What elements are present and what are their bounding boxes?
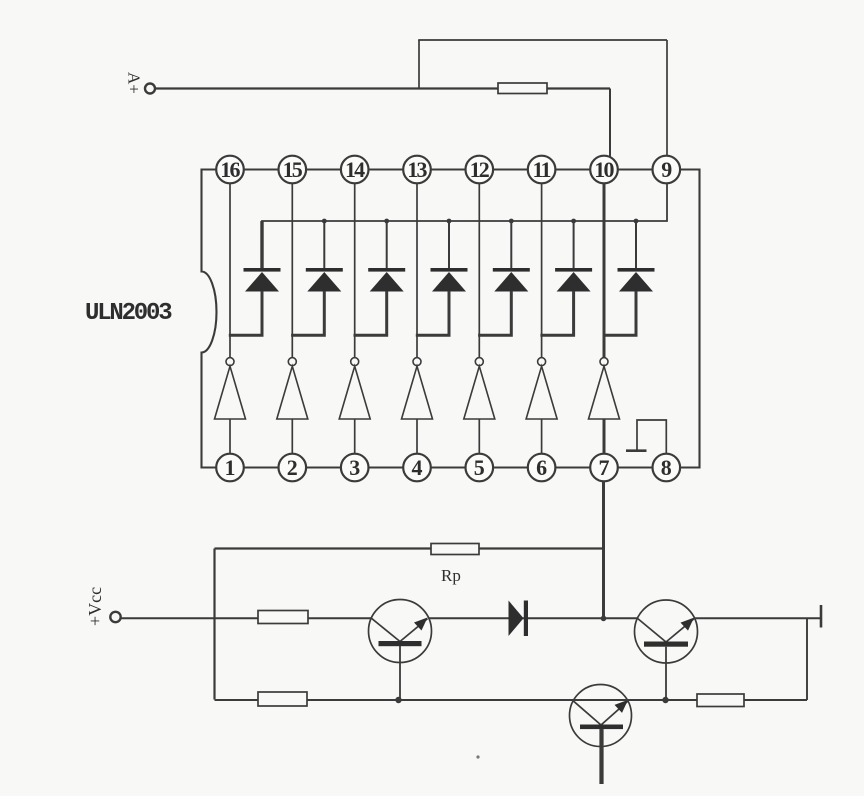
wire diode 1 anode to column [229,291,262,335]
inverter U1g triangle [589,366,620,419]
svg-text:8: 8 [661,455,672,480]
pin 15 (top) [279,156,307,184]
node diode 2 rail junction [322,219,327,224]
pin 6 (bottom) [528,454,556,482]
wire down to pin 10 [609,89,611,158]
node diode 3 rail junction [384,219,389,224]
wire riser to top loop [418,40,420,89]
inverter U1d triangle [402,366,433,419]
diode D1 [244,221,281,292]
node diode 6 rail junction [571,219,576,224]
wire main line Q1 to Q2 [429,617,638,619]
wire pin 7 down to main node [602,482,605,619]
svg-text:6: 6 [536,455,547,480]
resistor R3 [697,694,744,707]
inverter U1f triangle [526,366,557,419]
ground at pin 8 [626,420,666,454]
inverter U1a triangle [215,366,246,419]
diode D5 [493,221,530,292]
wire diode 7 anode to column [603,291,636,335]
diode D7 [618,221,655,292]
diode D4 [431,221,468,292]
inverter U1a input bubble [226,358,234,366]
wire input column pin 16 [229,184,231,358]
wire main line right of Q2 [695,617,821,619]
svg-text:16: 16 [220,157,240,182]
node pin7 main line junction [601,616,607,622]
diode D6 [555,221,592,292]
svg-text:7: 7 [599,455,610,480]
wire right vertical [806,618,808,700]
pin 4 (bottom) [403,454,431,482]
svg-text:ULN2003: ULN2003 [85,300,172,327]
terminal A+ circle [145,84,155,94]
svg-text:2: 2 [287,455,298,480]
pin 9 (top) [653,156,681,184]
pin 14 (top) [341,156,369,184]
inverter U1d input bubble [413,358,421,366]
diode D8 [509,601,529,637]
IC body ULN2003 outline with notch [202,170,700,468]
pin 5 (bottom) [466,454,494,482]
wire diode 5 anode to column [478,291,511,335]
wire input column pin 12 [478,184,480,358]
svg-text:3: 3 [349,455,360,480]
pin 2 (bottom) [279,454,307,482]
inverter U1e triangle [464,366,495,419]
wire output column pin 1 [229,419,231,454]
resistor R2 [258,692,307,706]
wire diode 2 anode to column [291,291,324,335]
pin 1 (bottom) [216,454,244,482]
wire left branch vertical [213,549,215,700]
svg-text:+Vcc: +Vcc [85,587,105,626]
node Q1 emitter junction [395,697,401,703]
pin 16 (top) [216,156,244,184]
svg-text:10: 10 [594,157,614,182]
pin 13 (top) [403,156,431,184]
wire top loop horizontal [418,39,667,41]
wire diode 4 anode to column [416,291,449,335]
wire output column pin 3 [354,419,356,454]
svg-text:13: 13 [407,157,427,182]
wire A+ horizontal [156,87,611,89]
wire top loop down to pin 9 [666,40,668,156]
wire main +Vcc line left [121,617,372,619]
terminal +Vcc circle [110,612,120,622]
resistor Rp [431,544,479,555]
diode D3 [368,221,405,292]
inverter U1e input bubble [475,358,483,366]
svg-text:Rp: Rp [441,566,461,585]
svg-text:14: 14 [345,157,365,182]
inverter U1g input bubble [600,358,608,366]
wire bottom rail [215,699,808,701]
diode D2 [306,221,343,292]
transistor Q1 [369,600,432,700]
svg-text:11: 11 [533,157,551,182]
pin 7 (bottom) [590,454,618,482]
speck [476,755,479,758]
inverter U1f input bubble [538,358,546,366]
wire input column pin 15 [291,184,293,358]
terminal end bar right [820,605,823,628]
svg-text:4: 4 [412,455,423,480]
pin 11 (top) [528,156,556,184]
transistor Q2 [635,600,698,700]
inverter U1b input bubble [288,358,296,366]
wire output column pin 5 [478,419,480,454]
wire input column pin 13 [416,184,418,358]
resistor R1 [258,611,308,624]
resistor R-top [498,83,547,94]
inverter U1c input bubble [351,358,359,366]
internal COM rail [262,184,667,269]
pin 12 (top) [466,156,494,184]
wire diode 3 anode to column [354,291,387,335]
node diode 5 rail junction [509,219,514,224]
inverter U1b triangle [277,366,308,419]
wire Rp feedback line [215,547,604,549]
pin 8 (bottom) [653,454,681,482]
transistor Q3 [570,685,632,785]
svg-text:15: 15 [283,157,303,182]
wire output column pin 7 [603,419,606,454]
inverter U1c triangle [339,366,370,419]
node diode 7 rail junction [634,219,639,224]
svg-text:12: 12 [470,157,490,182]
svg-text:1: 1 [225,455,236,480]
wire input column pin 11 [541,184,543,358]
svg-text:A+: A+ [125,72,144,94]
wire input column pin 14 [354,184,356,358]
wire diode 6 anode to column [540,291,573,335]
wire input column pin 10 [603,184,606,358]
wire output column pin 6 [541,419,543,454]
node diode 4 rail junction [447,219,452,224]
svg-text:5: 5 [474,455,485,480]
wire output column pin 2 [291,419,293,454]
pin 10 (top) [590,156,618,184]
node Q2 emitter junction [662,697,668,703]
wire output column pin 4 [416,419,418,454]
pin 3 (bottom) [341,454,369,482]
